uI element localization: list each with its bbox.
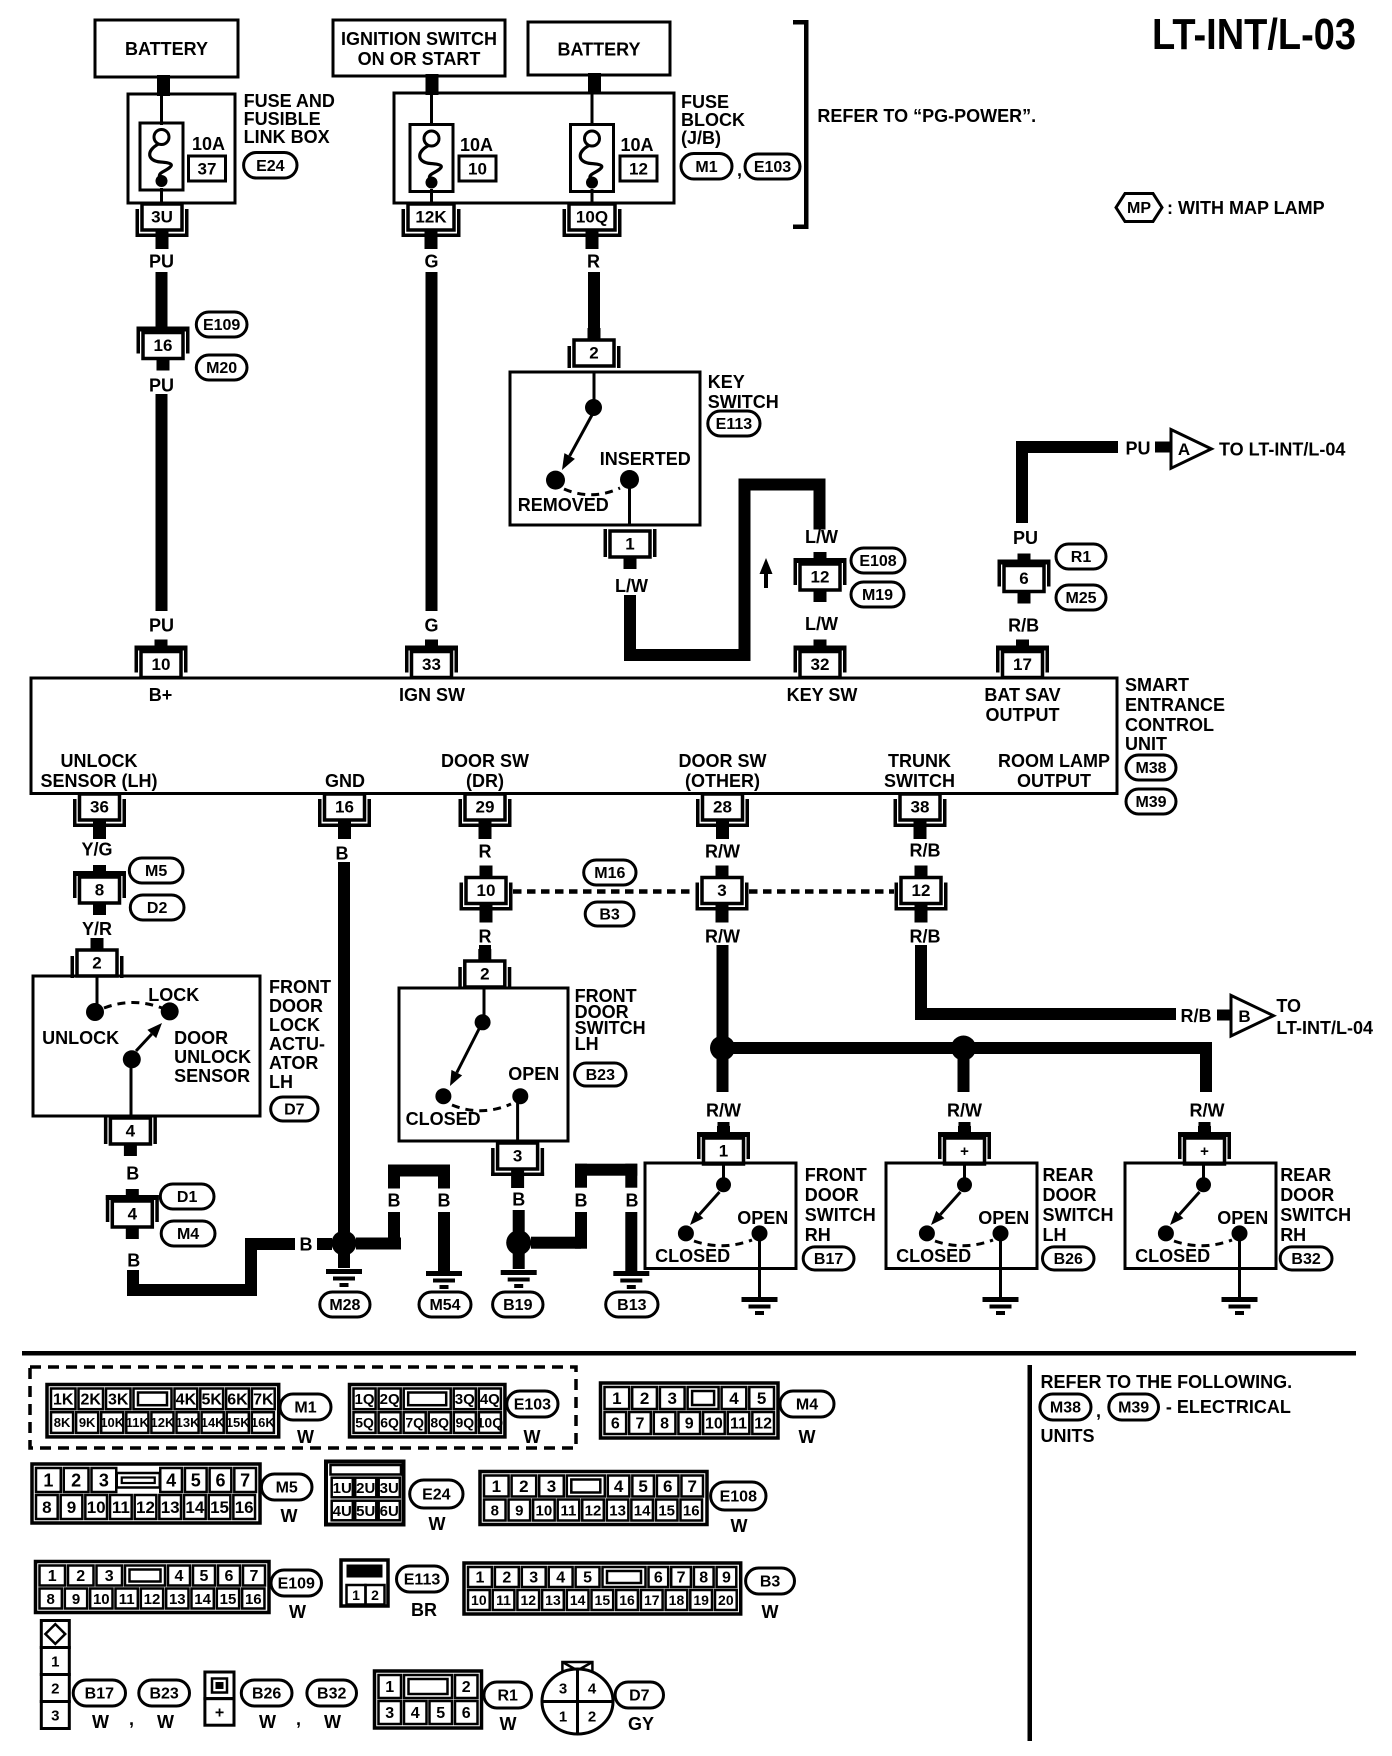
svg-text:CLOSED: CLOSED bbox=[896, 1246, 971, 1266]
connector 6 (R1/M25) bbox=[998, 554, 1051, 604]
label B (below 16) bbox=[336, 843, 349, 863]
connector E113 pin grid bbox=[341, 1560, 388, 1606]
svg-text:W: W bbox=[500, 1714, 517, 1734]
svg-text:1: 1 bbox=[492, 1477, 501, 1496]
key switch common contact bbox=[585, 372, 602, 416]
connector B17/B23 pin strip bbox=[41, 1621, 69, 1729]
connector 3U bbox=[136, 204, 189, 249]
svg-text:10: 10 bbox=[705, 1416, 723, 1433]
connector R1 legend label bbox=[484, 1682, 532, 1708]
label B (before M28 junction) bbox=[300, 1234, 313, 1254]
svg-text:12: 12 bbox=[136, 1498, 155, 1517]
svg-text:E113: E113 bbox=[404, 1572, 441, 1589]
svg-text:CLOSED: CLOSED bbox=[1135, 1246, 1210, 1266]
label W (B26) bbox=[259, 1712, 276, 1732]
svg-text:3: 3 bbox=[513, 1147, 522, 1166]
svg-text:3U: 3U bbox=[380, 1480, 399, 1497]
svg-text:10: 10 bbox=[477, 881, 496, 900]
svg-text:W: W bbox=[429, 1514, 446, 1534]
fuse 12 (10A) bbox=[571, 125, 614, 192]
svg-text:Y/R: Y/R bbox=[82, 919, 112, 939]
svg-text:5: 5 bbox=[200, 1568, 209, 1585]
svg-text:38: 38 bbox=[911, 798, 930, 817]
svg-text:ENTRANCE: ENTRANCE bbox=[1125, 695, 1225, 715]
svg-text:E103: E103 bbox=[754, 159, 791, 176]
wire stub to B19 junction bbox=[513, 1210, 525, 1232]
label CLOSED (front RH) bbox=[655, 1246, 730, 1266]
svg-text:2: 2 bbox=[51, 1680, 59, 1697]
connector M4 label bbox=[161, 1221, 215, 1246]
label DOOR SW (DR) bbox=[441, 751, 529, 791]
wire fuse 12 to 10Q bbox=[591, 189, 594, 204]
svg-text:4: 4 bbox=[175, 1568, 184, 1585]
svg-text:16: 16 bbox=[683, 1502, 700, 1519]
svg-text:W: W bbox=[324, 1712, 341, 1732]
label G (top) bbox=[424, 251, 438, 271]
svg-text:GND: GND bbox=[325, 771, 365, 791]
fuse number box 12 bbox=[620, 156, 657, 181]
connector M39 label bbox=[1126, 789, 1176, 814]
label GND bbox=[325, 771, 365, 791]
svg-text:R/W: R/W bbox=[705, 926, 740, 946]
svg-text:ON OR START: ON OR START bbox=[358, 49, 481, 69]
svg-text:M16: M16 bbox=[594, 865, 625, 882]
svg-text:OPEN: OPEN bbox=[737, 1208, 788, 1228]
ground B13 label bbox=[606, 1292, 658, 1317]
wire ignition switch to fuse block bbox=[426, 74, 439, 95]
svg-text:2: 2 bbox=[92, 954, 101, 973]
connector B3 label bbox=[585, 902, 634, 926]
svg-text:L/W: L/W bbox=[615, 576, 648, 596]
svg-text:14: 14 bbox=[634, 1502, 651, 1519]
svg-text:MP: MP bbox=[1127, 200, 1151, 217]
comma after B17 bbox=[129, 1709, 134, 1729]
connector B23 label bbox=[575, 1063, 626, 1086]
svg-text:B: B bbox=[388, 1190, 401, 1210]
svg-text:37: 37 bbox=[198, 160, 217, 179]
label Y/G bbox=[81, 839, 112, 859]
label REFER TO THE FOLLOWING bbox=[1041, 1372, 1293, 1392]
front door switch LH arm arrow bbox=[450, 1029, 479, 1086]
svg-text:E108: E108 bbox=[859, 553, 896, 570]
svg-text:B17: B17 bbox=[85, 1686, 114, 1703]
svg-text:2K: 2K bbox=[81, 1392, 102, 1409]
svg-text:9: 9 bbox=[72, 1591, 80, 1608]
wire G (12K to 33) bbox=[426, 272, 438, 611]
svg-text:R/B: R/B bbox=[910, 926, 941, 946]
wire Y/R (8 to 2) bbox=[91, 938, 103, 948]
ground (front door switch RH) bbox=[742, 1297, 778, 1315]
svg-text:A: A bbox=[1178, 440, 1190, 459]
key switch arm arrow (to REMOVED) bbox=[562, 415, 592, 470]
wire into + RH bbox=[1199, 1122, 1211, 1138]
wire junction1 down bbox=[717, 1058, 729, 1092]
connector 10Q bbox=[563, 204, 622, 249]
bracket (refer to PG-POWER) bbox=[793, 20, 809, 229]
label DOOR UNLOCK SENSOR bbox=[174, 1028, 251, 1086]
wire open to ground (rear RH) bbox=[1238, 1240, 1241, 1297]
actuator arm arrow (to LOCK) bbox=[136, 1023, 162, 1051]
connector D7 legend label bbox=[615, 1682, 663, 1708]
label W (B17) bbox=[92, 1712, 109, 1732]
svg-text:4: 4 bbox=[126, 1122, 136, 1141]
svg-text:12: 12 bbox=[912, 881, 931, 900]
label FRONT DOOR SWITCH LH bbox=[575, 986, 646, 1054]
label Y/R bbox=[82, 919, 112, 939]
connector M1 legend label bbox=[280, 1394, 331, 1420]
triangle A (to LT-INT/L-04) bbox=[1171, 430, 1211, 469]
key switch REMOVED contact bbox=[546, 471, 565, 490]
svg-text:16: 16 bbox=[154, 336, 173, 355]
junction rear door LH bbox=[951, 1036, 976, 1061]
label B (staple left leg) bbox=[388, 1190, 401, 1210]
svg-text:W: W bbox=[289, 1602, 306, 1622]
svg-text:8: 8 bbox=[660, 1416, 669, 1433]
svg-text:M39: M39 bbox=[1118, 1400, 1149, 1417]
svg-text:LT-INT/L-03: LT-INT/L-03 bbox=[1152, 10, 1356, 59]
wire open to ground (front RH) bbox=[758, 1240, 761, 1297]
rear door switch RH CLOSED contact bbox=[1158, 1225, 1174, 1241]
wire fuse 37 to 3U bbox=[160, 188, 163, 204]
rear door switch LH box bbox=[886, 1163, 1037, 1269]
wire R (10 to 2) bbox=[479, 945, 491, 955]
connector 16 (unit GND) bbox=[318, 794, 371, 839]
label 10A (fuse 10) bbox=[460, 135, 493, 155]
label W (E108) bbox=[731, 1516, 748, 1536]
label ROOM LAMP OUTPUT bbox=[998, 751, 1110, 791]
svg-text:14: 14 bbox=[570, 1592, 586, 1608]
svg-text:3: 3 bbox=[559, 1680, 567, 1697]
wire staple right leg lower bbox=[438, 1212, 450, 1271]
svg-text:SWITCH: SWITCH bbox=[1280, 1205, 1351, 1225]
front door lock actuator box bbox=[33, 976, 260, 1116]
svg-text:FUSE: FUSE bbox=[681, 92, 729, 112]
wire into 1 bbox=[718, 1122, 730, 1138]
label ELECTRICAL bbox=[1166, 1397, 1291, 1417]
connector M1 pin grid bbox=[47, 1385, 279, 1437]
svg-text:6K: 6K bbox=[227, 1392, 248, 1409]
svg-text:DOOR: DOOR bbox=[1280, 1185, 1334, 1205]
svg-text:1: 1 bbox=[719, 1142, 728, 1161]
wire B13 staple right leg lower bbox=[625, 1212, 637, 1271]
svg-text:10A: 10A bbox=[460, 135, 493, 155]
svg-text:7: 7 bbox=[240, 1470, 250, 1490]
label R/B (below 12) bbox=[910, 926, 941, 946]
connector D1 label bbox=[160, 1184, 214, 1209]
label UNLOCK bbox=[42, 1028, 119, 1048]
front door switch RH common contact bbox=[716, 1163, 731, 1192]
label REAR DOOR SWITCH LH bbox=[1043, 1165, 1114, 1245]
svg-text:KEY SW: KEY SW bbox=[787, 685, 858, 705]
svg-text:M4: M4 bbox=[796, 1397, 818, 1414]
svg-text:1K: 1K bbox=[53, 1392, 74, 1409]
svg-text:+: + bbox=[960, 1143, 969, 1160]
label PU (to A) bbox=[1125, 438, 1150, 458]
front door switch LH common contact bbox=[475, 988, 491, 1030]
svg-text:4K: 4K bbox=[176, 1392, 197, 1409]
svg-text:4: 4 bbox=[614, 1477, 624, 1496]
svg-text:2: 2 bbox=[371, 1587, 379, 1603]
ground B13 bbox=[613, 1271, 649, 1289]
label FUSE BLOCK (J/B) bbox=[681, 92, 745, 148]
svg-text:+: + bbox=[1200, 1143, 1209, 1160]
key switch INSERTED contact bbox=[620, 470, 639, 489]
label B (below D1/M4 4) bbox=[127, 1250, 140, 1270]
label R/B (above 17) bbox=[1008, 615, 1039, 635]
svg-text:15: 15 bbox=[595, 1592, 611, 1608]
label B (staple right leg) bbox=[438, 1190, 451, 1210]
svg-text:UNITS: UNITS bbox=[1041, 1426, 1095, 1446]
label BAT SAV OUTPUT bbox=[984, 685, 1060, 725]
svg-text:UNLOCK: UNLOCK bbox=[174, 1047, 251, 1067]
svg-text:7Q: 7Q bbox=[405, 1415, 424, 1431]
connector + (rear door switch LH) bbox=[938, 1126, 991, 1164]
label BR (E113) bbox=[411, 1600, 437, 1620]
rear door switch RH OPEN contact bbox=[1232, 1225, 1248, 1241]
ground M54 bbox=[426, 1271, 462, 1289]
connector R1 label bbox=[1056, 544, 1106, 569]
svg-text:16: 16 bbox=[619, 1592, 635, 1608]
connector E113 legend label bbox=[397, 1566, 448, 1592]
connector B26/B32 pin strip bbox=[205, 1672, 234, 1725]
svg-text:(DR): (DR) bbox=[466, 771, 504, 791]
label DOOR SW (OTHER) bbox=[679, 751, 767, 791]
svg-text:D1: D1 bbox=[177, 1189, 198, 1206]
svg-text:R: R bbox=[587, 251, 600, 271]
svg-text:PU: PU bbox=[1125, 438, 1150, 458]
svg-text:2: 2 bbox=[502, 1570, 511, 1587]
svg-text:CLOSED: CLOSED bbox=[406, 1109, 481, 1129]
connector 3 (front door switch LH) bbox=[491, 1143, 544, 1188]
staple wire to M54 (up-over) bbox=[388, 1165, 450, 1189]
svg-text:M54: M54 bbox=[429, 1297, 460, 1314]
svg-text:LH: LH bbox=[269, 1072, 293, 1092]
svg-text:REMOVED: REMOVED bbox=[518, 495, 609, 515]
svg-text:5Q: 5Q bbox=[355, 1415, 374, 1431]
battery box (left) bbox=[95, 20, 238, 77]
connector B26 legend label bbox=[241, 1680, 292, 1706]
connector M38 label bbox=[1126, 755, 1176, 780]
dashed harness line (3 to 12) bbox=[749, 889, 894, 894]
front door switch LH box bbox=[399, 988, 568, 1141]
svg-text:13K: 13K bbox=[176, 1415, 200, 1430]
svg-text:LH: LH bbox=[1043, 1225, 1067, 1245]
svg-text:B: B bbox=[300, 1234, 313, 1254]
svg-text:DOOR: DOOR bbox=[174, 1028, 228, 1048]
svg-text:W: W bbox=[157, 1712, 174, 1732]
svg-text:LT-INT/L-04: LT-INT/L-04 bbox=[1276, 1018, 1373, 1038]
svg-text:,: , bbox=[1096, 1401, 1101, 1421]
svg-text:3K: 3K bbox=[108, 1392, 129, 1409]
svg-text:10K: 10K bbox=[100, 1415, 124, 1430]
svg-text:R: R bbox=[479, 926, 492, 946]
connector E103 legend label bbox=[507, 1391, 558, 1417]
svg-text:3: 3 bbox=[385, 1705, 394, 1722]
label CLOSED (rear LH) bbox=[896, 1246, 971, 1266]
svg-text:3: 3 bbox=[547, 1477, 556, 1496]
connector 17 (unit BAT SAV) bbox=[996, 640, 1049, 678]
dashed arc closed-open (LH) bbox=[452, 1104, 511, 1111]
svg-text:,: , bbox=[296, 1709, 301, 1729]
dashed arc unlock-lock bbox=[104, 1003, 162, 1009]
svg-text:12: 12 bbox=[144, 1591, 161, 1608]
svg-text:RH: RH bbox=[805, 1225, 831, 1245]
front door switch LH CLOSED contact bbox=[435, 1088, 451, 1104]
svg-text:10: 10 bbox=[93, 1591, 110, 1608]
svg-text:R: R bbox=[479, 841, 492, 861]
svg-text:6: 6 bbox=[1019, 569, 1028, 588]
svg-text:R/W: R/W bbox=[1190, 1100, 1225, 1120]
svg-text:R/B: R/B bbox=[1008, 615, 1039, 635]
actuator common contact bbox=[86, 976, 104, 1021]
svg-text:FRONT: FRONT bbox=[269, 977, 331, 997]
svg-text:W: W bbox=[524, 1427, 541, 1447]
connector 12 (M16/B3 row) bbox=[895, 866, 948, 923]
connector B17 label bbox=[803, 1247, 854, 1270]
svg-text:5K: 5K bbox=[201, 1392, 222, 1409]
svg-text:KEY: KEY bbox=[708, 372, 745, 392]
svg-text:B: B bbox=[1238, 1007, 1250, 1026]
svg-text:Y/G: Y/G bbox=[81, 839, 112, 859]
svg-text:2: 2 bbox=[589, 344, 598, 363]
svg-text:FUSIBLE: FUSIBLE bbox=[244, 109, 321, 129]
svg-text:PU: PU bbox=[1013, 528, 1038, 548]
svg-text:M1: M1 bbox=[294, 1400, 316, 1417]
label INSERTED bbox=[600, 449, 691, 469]
svg-text:7: 7 bbox=[636, 1416, 645, 1433]
front door switch RH CLOSED contact bbox=[678, 1225, 694, 1241]
label B (below 3) bbox=[512, 1189, 525, 1209]
fuse and fusible link box bbox=[128, 94, 235, 203]
svg-text:D7: D7 bbox=[629, 1688, 650, 1705]
connector 36 (unit UNLOCK SENSOR) bbox=[73, 794, 126, 839]
svg-text:E108: E108 bbox=[720, 1489, 757, 1506]
svg-text:TRUNK: TRUNK bbox=[888, 751, 951, 771]
label REAR DOOR SWITCH RH bbox=[1280, 1165, 1351, 1245]
svg-text:10: 10 bbox=[468, 160, 487, 179]
front door switch LH OPEN contact bbox=[512, 1088, 528, 1104]
connector 10 (unit B+) bbox=[135, 640, 188, 678]
svg-text:5: 5 bbox=[436, 1705, 445, 1722]
flow arrow (up) bbox=[760, 558, 773, 588]
svg-text:6: 6 bbox=[611, 1416, 620, 1433]
svg-text:1: 1 bbox=[43, 1470, 53, 1490]
fuse 37 (10A) bbox=[140, 123, 183, 190]
svg-text:CONTROL: CONTROL bbox=[1125, 715, 1214, 735]
svg-text:12: 12 bbox=[754, 1416, 772, 1433]
svg-text:16K: 16K bbox=[251, 1415, 275, 1430]
svg-text:UNIT: UNIT bbox=[1125, 734, 1167, 754]
svg-text:11: 11 bbox=[561, 1502, 577, 1519]
connector M5 label bbox=[129, 858, 183, 883]
connector 4 (actuator) bbox=[104, 1116, 157, 1156]
svg-text:4: 4 bbox=[166, 1470, 176, 1490]
svg-text:OUTPUT: OUTPUT bbox=[986, 705, 1060, 725]
label W (E109) bbox=[289, 1602, 306, 1622]
wire battery to fuse/fusible link box bbox=[157, 75, 170, 96]
connector 2 (front door switch LH) bbox=[458, 949, 511, 989]
dashed arc removed-inserted bbox=[564, 488, 620, 495]
svg-text:ATOR: ATOR bbox=[269, 1053, 318, 1073]
fuse 10 (10A) bbox=[410, 125, 453, 192]
svg-text:W: W bbox=[799, 1427, 816, 1447]
label PU (above 6) bbox=[1013, 528, 1038, 548]
svg-text:14: 14 bbox=[185, 1498, 204, 1517]
svg-text:SWITCH: SWITCH bbox=[805, 1205, 876, 1225]
svg-text:B26: B26 bbox=[252, 1686, 281, 1703]
svg-text:PU: PU bbox=[149, 251, 174, 271]
connector M19 label bbox=[851, 582, 904, 607]
svg-text:,: , bbox=[737, 160, 742, 180]
svg-text:5U: 5U bbox=[356, 1503, 375, 1520]
connector R1 pin grid bbox=[375, 1671, 482, 1728]
ground B19 bbox=[501, 1270, 537, 1288]
svg-text:RH: RH bbox=[1280, 1225, 1306, 1245]
svg-text:SENSOR (LH): SENSOR (LH) bbox=[41, 771, 158, 791]
svg-text:1: 1 bbox=[51, 1653, 59, 1670]
svg-text:TO LT-INT/L-04: TO LT-INT/L-04 bbox=[1219, 439, 1345, 459]
svg-text:3: 3 bbox=[529, 1570, 538, 1587]
connector E24 legend label bbox=[410, 1480, 463, 1508]
label B (below actuator 4) bbox=[126, 1163, 139, 1183]
connector E113 label bbox=[708, 411, 760, 436]
label R (below 10) bbox=[479, 926, 492, 946]
svg-text:8Q: 8Q bbox=[430, 1415, 449, 1431]
svg-text:LINK BOX: LINK BOX bbox=[244, 127, 330, 147]
svg-text:B+: B+ bbox=[149, 685, 173, 705]
rear door switch RH box bbox=[1125, 1163, 1276, 1269]
svg-text:R/W: R/W bbox=[705, 841, 740, 861]
horizontal separator bbox=[22, 1351, 1356, 1356]
svg-text:3: 3 bbox=[717, 881, 726, 900]
label OPEN (front door switch LH) bbox=[508, 1064, 559, 1084]
rear door switch LH CLOSED contact bbox=[919, 1225, 935, 1241]
svg-text:1: 1 bbox=[385, 1679, 394, 1696]
svg-text:E24: E24 bbox=[422, 1487, 451, 1504]
svg-text:R1: R1 bbox=[1071, 549, 1092, 566]
wire R (10Q to key switch) bbox=[588, 272, 600, 339]
svg-text:M5: M5 bbox=[276, 1480, 298, 1497]
svg-text:SMART: SMART bbox=[1125, 675, 1189, 695]
connector 12K bbox=[402, 204, 461, 249]
svg-text:10Q: 10Q bbox=[477, 1415, 504, 1431]
connector 8 (M5/D2) bbox=[73, 865, 126, 915]
svg-text:17: 17 bbox=[644, 1592, 660, 1608]
svg-text:5: 5 bbox=[757, 1389, 766, 1408]
svg-text:36: 36 bbox=[90, 798, 109, 817]
label OPEN (rear RH) bbox=[1217, 1208, 1268, 1228]
connector 2 (door lock actuator) bbox=[71, 938, 124, 978]
connector 10 (M16/B3 row) bbox=[460, 866, 513, 923]
wire B19 junction to staple bbox=[531, 1237, 581, 1249]
svg-text:SWITCH: SWITCH bbox=[1043, 1205, 1114, 1225]
fuse block (J/B) box bbox=[394, 93, 674, 203]
wire R/B (12 down and right to B) bbox=[915, 945, 1176, 1020]
svg-text:M4: M4 bbox=[177, 1226, 199, 1243]
svg-text:W: W bbox=[762, 1602, 779, 1622]
label CLOSED (front door switch LH) bbox=[406, 1109, 481, 1129]
svg-text:1Q: 1Q bbox=[355, 1391, 375, 1408]
svg-text:1: 1 bbox=[612, 1389, 621, 1408]
svg-text:12: 12 bbox=[629, 160, 648, 179]
label R/B (below 38) bbox=[910, 840, 941, 860]
svg-text:W: W bbox=[297, 1427, 314, 1447]
svg-text:1: 1 bbox=[475, 1570, 484, 1587]
svg-text:32: 32 bbox=[811, 655, 830, 674]
svg-text:UNLOCK: UNLOCK bbox=[61, 751, 138, 771]
connector E109 label bbox=[196, 312, 247, 337]
svg-text:M19: M19 bbox=[862, 587, 893, 604]
